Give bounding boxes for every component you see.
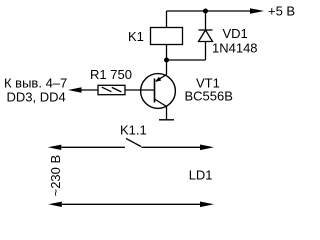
emitter arrow (PNP) bbox=[155, 77, 161, 82]
svg-text:K1.1: K1.1 bbox=[120, 123, 147, 138]
resistor R1 bbox=[98, 85, 125, 94]
arrow to DD3 DD4 bbox=[68, 87, 82, 92]
wire mains upper left bbox=[62, 146, 125, 148]
arrow mains lower to ~230V bbox=[48, 202, 62, 207]
svg-text:К выв. 4–7: К выв. 4–7 bbox=[4, 76, 67, 91]
wire resistor to base bbox=[125, 89, 155, 91]
relay coil K1 bbox=[151, 11, 183, 45]
diode VD1 bbox=[199, 11, 213, 60]
contact K1.1 blade bbox=[126, 139, 141, 147]
svg-text:~230 В: ~230 В bbox=[48, 155, 63, 197]
transistor VT1 bbox=[141, 74, 176, 120]
wire resistor to left arrow bbox=[82, 89, 99, 91]
wire node to diode anode bbox=[167, 59, 206, 61]
arrow lower to LD1 bbox=[200, 202, 214, 208]
svg-text:+5 В: +5 В bbox=[268, 4, 295, 19]
wire mains lower bbox=[62, 203, 201, 205]
svg-text:DD3, DD4: DD3, DD4 bbox=[7, 90, 66, 105]
svg-text:VD1: VD1 bbox=[223, 26, 248, 41]
svg-text:R1 750: R1 750 bbox=[90, 67, 132, 82]
arrow to +5V bbox=[250, 8, 264, 14]
arrow mains upper to ~230V bbox=[48, 145, 62, 150]
wire contact to LD1 bbox=[141, 146, 201, 148]
wire +5V top rail bbox=[167, 10, 252, 12]
wire relay bottom to node bbox=[166, 45, 168, 75]
svg-text:BC556B: BC556B bbox=[185, 89, 233, 104]
arrow upper to LD1 bbox=[200, 145, 214, 151]
node junction dot top (diode cathode to rail) bbox=[203, 9, 208, 14]
svg-text:K1: K1 bbox=[128, 29, 144, 44]
node junction dot (coil / diode / emitter) bbox=[164, 58, 169, 63]
svg-text:LD1: LD1 bbox=[189, 168, 213, 183]
svg-text:1N4148: 1N4148 bbox=[212, 41, 258, 56]
ground bar at collector bbox=[159, 119, 174, 121]
